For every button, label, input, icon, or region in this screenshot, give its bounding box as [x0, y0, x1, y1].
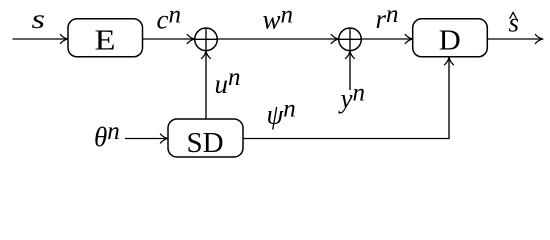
svg-text:D: D — [439, 25, 461, 57]
svg-text:SD: SD — [187, 127, 224, 159]
svg-text:s: s — [32, 4, 46, 34]
wire: adder2 to D, label r^n — [361, 38, 412, 40]
wire: D output s-hat — [487, 38, 542, 40]
svg-text:s: s — [509, 8, 520, 38]
block D — [413, 19, 488, 57]
svg-text:un: un — [215, 64, 241, 99]
block SD — [168, 119, 243, 157]
svg-text:yn: yn — [338, 80, 365, 114]
wire: u^n from SD up into adder1 — [205, 51, 207, 119]
svg-text:rn: rn — [376, 1, 399, 34]
adder U1 (circle with plus) — [195, 28, 218, 51]
wire: E to adder1, label c^n — [143, 38, 195, 40]
wire: adder1 to adder2, label w^n — [217, 38, 338, 40]
svg-text:ψn: ψn — [267, 96, 296, 130]
wire: psi^n from SD right, up into D bottom — [243, 58, 449, 139]
arrowhead into E — [60, 35, 67, 44]
block E — [68, 19, 143, 57]
svg-text:wn: wn — [263, 2, 294, 35]
svg-text:cn: cn — [157, 2, 181, 35]
adder U2 (circle with plus) — [339, 28, 362, 51]
svg-text:θn: θn — [94, 118, 120, 152]
wire: input s into E — [13, 38, 68, 40]
wire: y^n up into adder2 — [349, 51, 351, 90]
wire: theta^n into SD — [125, 138, 167, 140]
svg-text:E: E — [95, 25, 116, 57]
